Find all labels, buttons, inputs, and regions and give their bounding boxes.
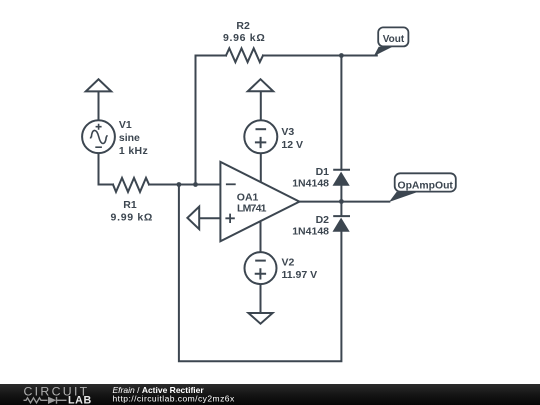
svg-text:12 V: 12 V bbox=[281, 139, 303, 151]
svg-text:D1: D1 bbox=[316, 166, 330, 178]
svg-text:V1: V1 bbox=[119, 119, 132, 131]
svg-text:V2: V2 bbox=[282, 257, 295, 269]
svg-text:sine: sine bbox=[119, 132, 140, 144]
svg-text:R2: R2 bbox=[236, 20, 250, 32]
svg-text:9.96 kΩ: 9.96 kΩ bbox=[223, 32, 266, 44]
svg-text:LM741: LM741 bbox=[237, 203, 267, 215]
svg-text:R1: R1 bbox=[123, 199, 137, 211]
svg-text:OA1: OA1 bbox=[237, 191, 259, 203]
svg-text:OpAmpOut: OpAmpOut bbox=[397, 180, 453, 191]
svg-text:1N4148: 1N4148 bbox=[292, 226, 329, 238]
svg-text:LAB: LAB bbox=[68, 395, 92, 405]
svg-text:Vout: Vout bbox=[383, 34, 405, 45]
svg-text:1N4148: 1N4148 bbox=[292, 177, 329, 189]
svg-text:9.99 kΩ: 9.99 kΩ bbox=[111, 212, 154, 224]
svg-text:V3: V3 bbox=[281, 126, 294, 138]
svg-text:1 kHz: 1 kHz bbox=[119, 145, 148, 157]
svg-text:D2: D2 bbox=[316, 214, 330, 226]
svg-text:11.97 V: 11.97 V bbox=[282, 269, 318, 281]
svg-text:http://circuitlab.com/cy2mz6x: http://circuitlab.com/cy2mz6x bbox=[113, 394, 235, 404]
